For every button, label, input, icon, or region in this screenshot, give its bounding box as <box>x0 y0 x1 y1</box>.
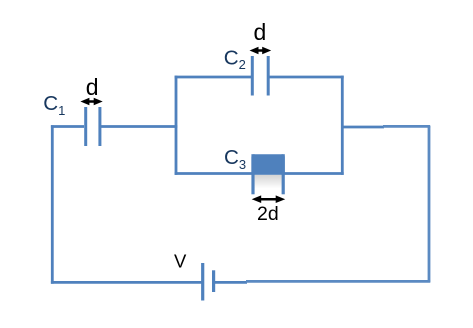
battery V short plate <box>212 270 215 292</box>
capacitor C2 left plate <box>251 56 254 96</box>
arrow 2d under C3 <box>252 195 286 203</box>
wire middle left (node to C1) <box>51 125 84 128</box>
capacitor C3 dielectric slab <box>251 154 284 173</box>
wire box left vertical <box>175 76 178 175</box>
arrow d over C1 <box>80 98 102 105</box>
capacitor C3 left plate <box>251 154 254 194</box>
wire bottom right (dark segment) <box>215 281 247 284</box>
wire bottom left <box>51 281 203 284</box>
arrow d over C2 <box>250 47 272 54</box>
wire bottom right (light segment) <box>246 280 430 283</box>
capacitor C2 right plate <box>267 56 270 96</box>
svg-text:d: d <box>254 19 267 45</box>
wire box bottom <box>175 172 344 175</box>
wire box right vertical <box>341 76 344 175</box>
capacitor C1 right plate <box>98 107 101 146</box>
wire left vertical <box>51 125 54 284</box>
svg-text:d: d <box>86 74 99 100</box>
capacitor C3 right plate <box>282 154 285 194</box>
capacitor C1 left plate <box>84 107 87 146</box>
wire right vertical <box>428 126 431 282</box>
wire C1 to box <box>101 125 177 128</box>
wire middle right light segment <box>383 125 430 128</box>
wire middle right (box to right wire) <box>341 126 384 129</box>
capacitor C3 gap shading <box>255 175 282 189</box>
battery V long plate <box>201 263 204 301</box>
wire box top right <box>269 76 344 79</box>
wire box top left <box>175 76 251 79</box>
svg-text:V: V <box>174 251 187 272</box>
svg-text:2d: 2d <box>257 203 279 225</box>
